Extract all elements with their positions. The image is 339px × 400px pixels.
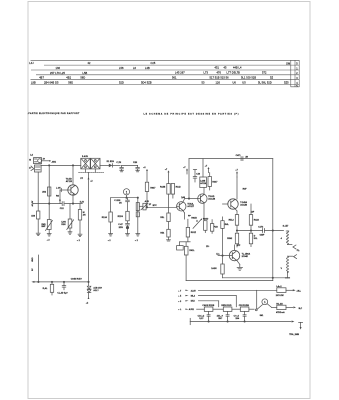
wire after D1 — [113, 164, 121, 166]
node e — [126, 197, 127, 198]
wire S1 feed — [256, 290, 258, 309]
wire right rail — [272, 159, 274, 281]
svg-text:1Pr: 1Pr — [206, 245, 210, 248]
ground under R1 — [36, 233, 40, 235]
svg-text:OM: OM — [286, 61, 290, 65]
IF transformer L2 — [91, 158, 100, 169]
capacitor C49 — [193, 170, 201, 182]
svg-text:R5L2: R5L2 — [229, 219, 235, 221]
wire filter out — [100, 164, 109, 166]
wire Q1 emitter — [72, 195, 74, 203]
wire bus A — [223, 277, 288, 279]
svg-text:.PARTIE ELECTRONIQUE PAR RAPPO: .PARTIE ELECTRONIQUE PAR RAPPORT — [28, 112, 81, 115]
wire row3 — [198, 301, 218, 307]
svg-text:L4J: L4J — [29, 61, 34, 65]
resistor R1 1N8 — [31, 211, 40, 219]
wire mid h out — [237, 230, 263, 232]
svg-text:CAD2 R1DB: CAD2 R1DB — [202, 304, 214, 307]
resistor R947 — [145, 182, 156, 207]
resistor R91L — [184, 246, 195, 280]
microphone M1 — [34, 158, 42, 164]
svg-text:1: 1 — [264, 300, 266, 304]
wire row2 — [198, 296, 236, 307]
resistor R124 — [102, 212, 113, 233]
label D3 D4 — [93, 287, 102, 293]
label Q4 type — [240, 201, 247, 207]
capacitor CB1 — [198, 311, 211, 321]
ground under R5 — [68, 232, 72, 234]
resistor R542a — [229, 215, 239, 234]
node a — [49, 165, 50, 166]
svg-text:AC12B: AC12B — [208, 197, 215, 200]
svg-text:L45 267: L45 267 — [175, 71, 185, 75]
node d — [72, 203, 73, 204]
node c — [49, 203, 50, 204]
stub shield2 — [94, 169, 96, 172]
wire drop T2col — [137, 198, 139, 234]
node r — [51, 281, 52, 282]
supply arrow +7c — [183, 167, 188, 174]
speaker tap1 — [288, 245, 301, 252]
svg-text:B9P: B9P — [42, 226, 47, 228]
node f — [137, 197, 138, 198]
svg-text:C25: C25 — [151, 61, 156, 65]
svg-text:44B L4: 44B L4 — [233, 66, 242, 70]
capacitor C173 — [258, 227, 265, 237]
supply row3 label — [178, 301, 195, 303]
stub shield1 — [85, 169, 87, 172]
node q — [38, 281, 39, 282]
resistor R1A2N — [211, 264, 224, 278]
svg-text:A1,5V: A1,5V — [31, 200, 34, 206]
svg-text:R92D: R92D — [203, 219, 209, 221]
svg-text:561: 561 — [172, 76, 177, 80]
ground Q5 — [237, 267, 242, 270]
wire stage2 h — [111, 197, 138, 199]
resistor R1-472 — [272, 302, 286, 314]
svg-text:2L4V: 2L4V — [191, 289, 197, 292]
svg-text:47DDmA: 47DDmA — [276, 311, 285, 314]
label +2 tp5 — [86, 297, 90, 304]
trimmer P2 — [191, 218, 202, 229]
svg-text:C471: C471 — [236, 154, 242, 157]
svg-text:UND: UND — [32, 257, 34, 262]
table cell text — [29, 61, 290, 85]
svg-text:2N: 2N — [83, 214, 86, 216]
capacitor C4 — [133, 162, 139, 170]
svg-text:R124: R124 — [102, 216, 108, 219]
svg-text:451: 451 — [215, 66, 220, 70]
capacitor C67 — [118, 221, 129, 234]
svg-text:58D: 58D — [80, 76, 85, 80]
svg-text:1: 1 — [126, 190, 128, 194]
node p — [244, 321, 245, 322]
svg-text:C52 R1DB: C52 R1DB — [239, 305, 250, 307]
svg-text:5 AJN: 5 AJN — [82, 155, 88, 158]
diode D4 — [87, 290, 91, 299]
resistor R6 — [78, 204, 86, 234]
resistor R542b — [227, 233, 239, 247]
svg-text:C173: C173 — [258, 227, 264, 229]
svg-text:2B4 64B D5: 2B4 64B D5 — [44, 81, 59, 85]
wire to R1472 — [267, 304, 272, 308]
wire Q4 base lead — [223, 203, 228, 205]
supply arrow +7d — [205, 166, 210, 173]
wire C173 to tr — [264, 230, 283, 232]
earth arrow — [299, 322, 303, 329]
svg-text:5L 56L 52D: 5L 56L 52D — [258, 81, 272, 85]
node g — [146, 207, 147, 208]
resistor RAL — [43, 282, 54, 295]
label M1 — [29, 158, 46, 170]
transistor Q2 AC127 — [177, 202, 186, 211]
capacitor C471 — [236, 154, 249, 161]
switch SB1 stub — [42, 160, 57, 163]
capacitor C3 — [116, 162, 123, 170]
wire to C4 — [122, 164, 138, 166]
wire Q3 base lead — [198, 198, 201, 200]
diode D1 — [107, 161, 115, 167]
svg-text:U6: U6 — [233, 81, 237, 85]
ground under C3 — [120, 171, 124, 172]
svg-text:AJB 1N?: AJB 1N? — [93, 287, 102, 290]
wire bottom bus — [190, 321, 291, 323]
bus left bar — [189, 318, 191, 324]
capacitor C940 — [57, 282, 68, 295]
svg-text:136: 136 — [56, 66, 61, 70]
trimmer pot P1 — [139, 200, 151, 210]
svg-text:R947: R947 — [150, 186, 156, 189]
node o — [227, 321, 228, 322]
resistor R423 — [249, 204, 259, 233]
ground under C67 — [126, 234, 130, 236]
svg-text:AC12B: AC12B — [240, 203, 247, 206]
svg-text:R91B: R91B — [191, 218, 197, 220]
wire batt rail — [37, 255, 39, 282]
coil L43B — [200, 159, 207, 188]
node t — [88, 281, 89, 282]
capacitor CB2 — [217, 311, 230, 321]
ground under C4 — [136, 171, 140, 172]
title block table — [31, 60, 300, 87]
wire Q1 base — [56, 188, 71, 204]
resistor R922 — [221, 217, 230, 264]
svg-text:AF115: AF115 — [66, 180, 73, 183]
wire feedback h — [179, 241, 190, 243]
wire Q2 emitter — [183, 211, 191, 220]
svg-text:476: 476 — [217, 71, 222, 75]
svg-text:R2N: R2N — [61, 224, 66, 226]
svg-text:L58: L58 — [119, 66, 124, 70]
svg-text:4B7: 4B7 — [39, 76, 44, 80]
svg-text:2DN: 2DN — [119, 227, 124, 229]
svg-text:L6: L6 — [133, 66, 136, 70]
resistor R130 — [136, 203, 139, 211]
IF transformer L1 — [81, 158, 90, 169]
svg-text:C,7N: C,7N — [116, 162, 121, 164]
svg-text:R542: R542 — [227, 237, 233, 240]
node h — [188, 198, 189, 199]
label Q3 type — [208, 196, 215, 201]
svg-text:2C94D: 2C94D — [242, 255, 249, 258]
svg-text:45: 45 — [224, 66, 227, 70]
svg-text:4B2: 4B2 — [66, 76, 71, 80]
ground under T2col — [136, 234, 140, 236]
supply row2 arrow — [185, 295, 188, 296]
node s — [63, 281, 64, 282]
svg-text:572: 572 — [262, 71, 267, 75]
svg-text:LE SCHEMA DE PRINCIPE EST DESS: LE SCHEMA DE PRINCIPE EST DESSINE EN PAR… — [144, 113, 240, 116]
wire Q4 collector — [237, 177, 247, 199]
svg-text:R91Z: R91Z — [191, 232, 197, 234]
svg-text:P2D: P2D — [214, 226, 219, 228]
svg-text:U5: U5 — [242, 81, 246, 85]
node l — [222, 255, 223, 256]
svg-text:TRA_2MB: TRA_2MB — [289, 333, 299, 336]
svg-text:L73: L73 — [204, 71, 209, 75]
resistor RB1 — [202, 304, 214, 311]
svg-text:B7C: B7C — [153, 205, 158, 207]
diode D2 — [249, 233, 258, 246]
svg-text:52D: 52D — [119, 81, 124, 85]
wire long rail — [88, 172, 90, 282]
node 1 circled — [123, 189, 129, 198]
resistor R142 — [171, 184, 181, 199]
svg-text:LA+2: LA+2 — [276, 285, 282, 288]
resistor R2 2N2 — [42, 187, 51, 196]
label Q2 type — [181, 196, 195, 208]
wire to A base — [146, 205, 177, 207]
supply arrow +7e — [235, 169, 238, 177]
resistor R148 — [160, 184, 170, 214]
wire top rail — [189, 158, 273, 160]
node m — [272, 277, 273, 278]
svg-text:5,1V: 5,1V — [80, 202, 85, 204]
svg-text:C?+4: C?+4 — [234, 314, 240, 317]
resistor R91Z — [186, 219, 196, 242]
transistor Q3 AC128 — [198, 194, 207, 203]
svg-text:645F: 645F — [260, 233, 265, 236]
svg-text:2N?-2W: 2N?-2W — [276, 295, 284, 297]
transformer base tick — [286, 277, 290, 279]
svg-text:5Z: 5Z — [270, 76, 273, 80]
capacitor CB3 — [234, 311, 247, 321]
svg-text:257 L76 L25: 257 L76 L25 — [50, 71, 66, 75]
svg-text:AJ52: AJ52 — [189, 308, 195, 311]
transistor Q1 AF115 — [68, 185, 78, 195]
wire Q2 collector — [183, 199, 198, 203]
svg-text:C94D R45?: C94D R45? — [71, 278, 83, 281]
svg-text:R,AL: R,AL — [43, 287, 49, 290]
node k — [272, 230, 273, 231]
svg-text:R14B: R14B — [160, 186, 166, 189]
svg-text:L4B: L4B — [145, 66, 150, 70]
wire bottom-left bus — [34, 281, 89, 283]
svg-text:1A2N: 1A2N — [211, 267, 217, 270]
resistor R149 — [160, 213, 170, 222]
supply rail hwire — [33, 203, 83, 205]
svg-text:A1L?: A1L? — [93, 289, 99, 292]
svg-text:5,2?: 5,2? — [199, 318, 204, 320]
wire row4 — [197, 308, 255, 310]
svg-text:R423: R423 — [254, 218, 260, 221]
node n — [208, 321, 209, 322]
svg-text:L77 D5L7B: L77 D5L7B — [227, 71, 241, 75]
ground under R154 — [167, 240, 171, 241]
ground under R6 — [78, 234, 82, 236]
arrow +BL — [286, 289, 302, 292]
resistor RB2 — [221, 305, 232, 311]
label Q1 type — [66, 178, 84, 183]
wire Q5 emitter — [235, 245, 240, 267]
input box M2 — [31, 165, 41, 172]
supply row4 arrow — [185, 309, 188, 310]
capacitor C22 — [59, 200, 64, 210]
resistor R131 — [136, 212, 139, 217]
wire bias rail — [48, 165, 50, 233]
label Q5 type — [216, 253, 250, 259]
bus right arrow — [292, 321, 295, 323]
svg-text:B,C: B,C — [299, 308, 303, 310]
svg-text:LA: LA — [30, 153, 33, 156]
ground under R4 — [47, 234, 51, 236]
wire Q4 emitter — [235, 208, 255, 214]
svg-text:C2N: C2N — [133, 162, 138, 164]
battery LA42 — [276, 285, 286, 297]
svg-text:+B,L: +B,L — [296, 291, 301, 293]
resistor R154 — [160, 222, 170, 240]
node b — [72, 165, 73, 166]
supply arrow +7b — [165, 169, 170, 184]
switch S1 — [255, 305, 264, 317]
supply row1 arrow — [185, 290, 188, 291]
svg-text:5L1 5J9 52B: 5L1 5J9 52B — [241, 76, 256, 80]
bus arrow left — [31, 281, 34, 283]
ground under R124 — [109, 234, 113, 236]
supply arrow +2a — [143, 167, 148, 182]
node j — [250, 230, 251, 231]
svg-text:R142: R142 — [176, 186, 182, 189]
svg-text:L43B: L43B — [200, 179, 206, 182]
battery text 9V — [32, 257, 34, 271]
wire Q3 emitter — [203, 203, 205, 221]
supply row1 label — [178, 289, 196, 292]
trimmer R4 — [42, 220, 53, 231]
resistor R921 — [210, 220, 218, 234]
wire Q3 collector — [203, 188, 205, 195]
wire Q5 base — [218, 255, 232, 257]
svg-text:58D: 58D — [68, 81, 73, 85]
svg-text:D1 E1N: D1 E1N — [107, 161, 115, 163]
svg-text:42: 42 — [88, 61, 91, 65]
svg-text:RG: RG — [56, 195, 60, 197]
svg-text:R347: R347 — [212, 180, 218, 183]
svg-text:5Z5: 5Z5 — [284, 81, 289, 85]
supply arrow +2 rail — [88, 177, 94, 182]
capacitor C15 — [114, 198, 129, 212]
svg-text:5D4 5ZB: 5D4 5ZB — [141, 81, 152, 85]
supply row3 arrow — [185, 300, 188, 301]
svg-text:R5D2 R1D: R5D2 R1D — [221, 305, 232, 307]
supply row4 label — [178, 308, 194, 311]
svg-text:AC1Z7: AC1Z7 — [187, 205, 194, 208]
resistor R106 — [118, 211, 130, 221]
transformer secondary — [281, 256, 289, 278]
node i — [236, 230, 237, 231]
svg-text:AC1M: AC1M — [200, 182, 206, 185]
capacitor C52 — [177, 242, 184, 250]
node 1b circled — [262, 299, 268, 305]
wire Q4 base net — [233, 203, 252, 205]
svg-text:L9B: L9B — [31, 81, 36, 85]
svg-text:126: 126 — [216, 81, 221, 85]
svg-text:R1-4/2: R1-4/2 — [276, 302, 283, 305]
diode D3 — [87, 282, 91, 289]
transformer primary — [281, 231, 289, 245]
wire drop interstage — [188, 159, 190, 199]
arrow BC — [286, 306, 303, 309]
trimmer R5 — [61, 204, 73, 232]
transistor Q4 AC125 — [228, 199, 238, 209]
wire row1 — [198, 289, 276, 291]
wire drop R124 — [110, 198, 112, 212]
table row numbers — [296, 62, 298, 88]
svg-text:M: M — [29, 159, 31, 161]
wire Q1 collector — [72, 165, 74, 184]
svg-text:53: 53 — [202, 81, 205, 85]
shield dashed — [79, 171, 104, 173]
supply row2 label — [178, 296, 196, 298]
wire input bus — [41, 164, 81, 166]
resistor R920 — [203, 219, 209, 233]
wire drop R91L — [185, 242, 187, 247]
svg-text:517 51B 515 56: 517 51B 515 56 — [210, 76, 230, 80]
resistor R347 — [208, 173, 218, 190]
resistor RB3 — [239, 305, 250, 311]
svg-text:C,L4D 5μ?: C,L4D 5μ? — [57, 291, 68, 294]
wire bus B — [186, 280, 273, 282]
wire Q2 base lead — [177, 205, 180, 207]
svg-text:L5B: L5B — [83, 71, 88, 75]
transistor Q5 2N940 — [229, 250, 239, 260]
svg-text:S-1Z7: S-1Z7 — [283, 226, 290, 228]
wire v-rail left — [37, 172, 39, 233]
svg-text:R1D6: R1D6 — [118, 216, 124, 218]
svg-text:R91L: R91L — [189, 250, 195, 252]
speaker tap2 — [288, 255, 297, 259]
svg-text:L 2N: L 2N — [56, 188, 61, 190]
